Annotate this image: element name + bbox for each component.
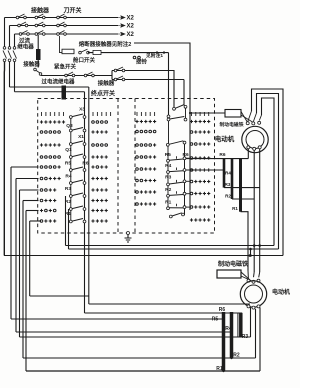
motor1 slant c [259, 115, 261, 121]
controller row left y221 [40, 219, 56, 222]
controller2 row left y204 [136, 202, 157, 205]
controller row mid y190 [91, 188, 107, 191]
contactor KM2 main contact phase 2 [35, 22, 45, 27]
arrow to X2 phase 1 [118, 16, 125, 20]
wire tap bank1 y170 [186, 169, 224, 171]
wire chain1 bottom drop x84.5 [84, 232, 86, 313]
chain2 link x186 [185, 108, 187, 118]
label chain2 R6 [183, 152, 189, 158]
controller row left y145 [40, 143, 61, 146]
controller row mid y157 [91, 155, 107, 158]
junction y245.5 a [253, 244, 256, 247]
label fuse-contactor note2 [79, 40, 132, 48]
controller row mid y167 [91, 165, 107, 168]
label hatch switch [73, 56, 96, 64]
contactor KM main contact phase 2 [18, 22, 28, 27]
fuse slant phase 2 [8, 51, 12, 59]
resistor bar R6b [231, 159, 234, 199]
label bank1 R4 [225, 171, 231, 176]
arrow to X2 phase 2 [118, 24, 125, 28]
controller2 row right y121.5 [190, 120, 210, 123]
terminal circle x168.5 [167, 115, 170, 118]
wire phase drop 3 [14, 34, 16, 47]
wire phase A long drop (outer left) [3, 62, 5, 256]
fuse F1 rect [62, 49, 74, 54]
emergency switch contact a [65, 72, 75, 77]
label bank1 R6 [219, 152, 225, 158]
motor2 rotor wire b [255, 309, 257, 358]
chain2 ladder contact y170 [165, 162, 190, 181]
svg-text:R4: R4 [225, 171, 231, 176]
controller2 row left y192 [136, 190, 157, 193]
knife switch QS pole 2 [57, 22, 67, 27]
wire return y245.5 [66, 245, 275, 247]
label bank1 R1 [232, 206, 238, 211]
wire phase L1 horizontal [5, 17, 119, 19]
svg-text:接触器: 接触器 [23, 60, 40, 68]
controller2 row left y145 [136, 143, 157, 146]
motor 1 stator circle [242, 126, 268, 152]
wire chain1 bottom drop x88.8 [88, 232, 90, 304]
chain2 link x168.5 [168, 121, 170, 143]
fuse slant phase 1 [3, 51, 7, 59]
controller2 row right y114 [192, 112, 209, 116]
svg-text:电动机: 电动机 [215, 134, 235, 143]
svg-text:过流: 过流 [19, 37, 31, 45]
terminal circle lower phase 3 [13, 59, 16, 62]
hatch switch contact [79, 49, 90, 54]
bank1 tap x248 slant [247, 271, 249, 280]
controller2 row right y170 [190, 168, 210, 171]
controller row mid y145 [92, 144, 108, 147]
resistor2 thin line [237, 313, 239, 337]
contactor KM2 main contact phase 1 [35, 14, 45, 19]
motor2 rotor wire c [259, 308, 261, 372]
motor1 bottom terminal c [258, 146, 261, 149]
motor1 terminal c [258, 121, 261, 124]
wire controller tap 3 horizontal [20, 189, 39, 191]
wire control y87 [10, 86, 89, 88]
chain1 vertical bus x88.8 [88, 87, 90, 232]
label X2 phase 1 [127, 16, 135, 22]
svg-text:X1: X1 [78, 134, 84, 140]
arrow to X2 phase 3 [118, 32, 125, 36]
contactor KM2 main contact phase 3 [35, 31, 45, 36]
controller box2 left dashed edge [134, 99, 136, 234]
ground symbol [125, 232, 132, 243]
wire controller tap 5 vertical [25, 211, 27, 372]
motor1 bottom terminal b [253, 147, 256, 150]
controller row left y178.5 [40, 177, 61, 180]
wire chain1 aux drop x68.5 [68, 209, 70, 249]
motor 1 rotor circle [246, 131, 264, 149]
controller box1 right dashed edge [117, 99, 119, 234]
controller2 row left y114 [137, 112, 155, 116]
wire controller tap 4 vertical [22, 201, 24, 359]
wire brake2 slant a [241, 272, 250, 280]
chain2 ladder contact y158.2 [165, 146, 190, 169]
motor2 rotor wire a [250, 308, 252, 338]
svg-text:见附注1: 见附注1 [146, 52, 163, 59]
chain1 vertical bus x84.5 [84, 92, 86, 232]
motor1 rotor wire b slant [253, 272, 256, 277]
svg-text:R3: R3 [225, 182, 231, 187]
wire bottom y313 (bar top bus) [85, 312, 243, 314]
controller row left y210.5 [40, 209, 56, 212]
label motor 2 [272, 288, 290, 296]
label brake electromagnet 2 [218, 260, 248, 268]
wire bottom y296 [30, 295, 89, 297]
label motor 1 [215, 134, 235, 143]
controller2 row right y207 [190, 205, 210, 208]
motor2 bottom terminal a [247, 305, 250, 308]
wire x184 drop [183, 80, 185, 106]
label end switch [90, 90, 115, 98]
controller2 row right y181.5 [190, 180, 210, 183]
controller row mid y178.5 [91, 177, 107, 180]
chain1 contact Q3 [66, 118, 86, 132]
controller row left y200.5 [40, 199, 56, 202]
wire controller tap 2 vertical [15, 179, 17, 333]
controller row mid y221 [91, 219, 107, 222]
motor1 rotor wire b (long) [253, 150, 255, 272]
label overcurrent relay long [41, 78, 75, 86]
wire brake1 to motor b [241, 115, 253, 122]
resistor bar R6a [223, 159, 226, 188]
bank1 tap y211.7 [241, 212, 249, 271]
wire phase L3 horizontal [15, 33, 119, 35]
contactor aux contact below relay [34, 68, 42, 75]
controller2 row right y220 [190, 218, 210, 221]
controller row mid y200.5 [91, 199, 107, 202]
svg-text:R1: R1 [232, 206, 238, 211]
svg-text:电动机: 电动机 [272, 288, 290, 296]
motor 2 stator circle [240, 281, 266, 307]
fuse F2 rect [93, 50, 101, 54]
chain2 top contact B [167, 117, 187, 122]
chain2 right bus [184, 144, 186, 215]
junction bell a [156, 51, 158, 53]
label chain2 R5 [165, 152, 171, 158]
overcurrent relay coil KA1 (filled) [36, 35, 41, 68]
controller2 row left y157 [136, 155, 157, 158]
wire controller tap 1 vertical [10, 167, 12, 319]
wire brake1 feed [190, 112, 225, 114]
fuse slant phase 3 [13, 51, 17, 59]
chain2 ladder contact y207.1 [167, 197, 191, 209]
label bell [136, 58, 148, 66]
svg-text:X2: X2 [127, 32, 135, 38]
wire control split vertical [111, 71, 113, 80]
motor1 bottom terminal a [247, 146, 250, 149]
contactor aux pair on y70.5 [114, 67, 125, 72]
label contactor right [98, 79, 115, 87]
motor2 top terminal c [257, 279, 260, 282]
label X2 phase 2 [127, 24, 135, 30]
wire controller tap 2 horizontal [16, 178, 39, 180]
controller2 row right y132 [190, 130, 210, 133]
chain1 contact X3 [69, 107, 86, 119]
junction y245.5 b [258, 244, 261, 247]
svg-text:制动电磁铁: 制动电磁铁 [218, 260, 248, 268]
chain2 ladder top contact [166, 141, 186, 146]
junction R4 bar [230, 331, 232, 333]
chain1 contact R4 [65, 171, 85, 184]
label overcurrent relay line2 [17, 43, 34, 51]
label R3 bottom [242, 334, 249, 340]
chain1 contact X1 [69, 132, 86, 146]
controller dashed box outline [38, 99, 215, 234]
label X2 phase 3 [127, 32, 135, 38]
contactor KM main contact phase 1 [16, 14, 26, 19]
wire row221 branch [29, 221, 31, 296]
motor1 over-arch feed a [252, 89, 284, 256]
chain1 contact R1 [65, 210, 86, 223]
junction R2 bar [230, 357, 232, 359]
svg-text:Q3: Q3 [66, 123, 73, 129]
junction y255.5 [249, 254, 252, 257]
resistor2 bar A [222, 312, 226, 371]
controller row left y167 [40, 165, 61, 168]
controller row mid y210.5 [91, 209, 107, 212]
terminal circle lower phase 1 [3, 59, 6, 62]
contactor KM main contact phase 3 [19, 31, 29, 36]
motor1 rotor wire c (long) [259, 149, 261, 272]
bank1 tap y199 [232, 198, 254, 200]
wire phase drop 1 [4, 18, 6, 47]
wire controller tap 5 horizontal [26, 210, 39, 212]
chain2 ladder contact y193.7 [165, 186, 190, 206]
resistor2 bar D [239, 313, 243, 337]
chain2 top contact A [173, 105, 187, 111]
wire control y70.5 [112, 71, 174, 108]
controller row mid y132 [91, 130, 107, 133]
motor2 bottom terminal c [257, 305, 260, 308]
label see note1 [146, 52, 163, 59]
motor1 slant b [253, 113, 256, 122]
wire tap R3 y337 [20, 336, 251, 338]
motor1 over-arch feed b [257, 94, 279, 250]
wire control y75.5 [41, 75, 112, 77]
label R5 bottom [212, 317, 219, 323]
chain1 label R6 [82, 161, 88, 167]
svg-text:X2: X2 [127, 16, 135, 22]
label brake electromagnet 1 [220, 121, 244, 128]
svg-text:继电器: 继电器 [17, 43, 34, 51]
knife switch QS pole 1 [57, 14, 67, 19]
label emergency switch [54, 63, 77, 71]
svg-text:终点开关: 终点开关 [90, 90, 115, 98]
svg-text:熔断器接触器见附注2: 熔断器接触器见附注2 [79, 40, 132, 48]
junction y255.5 b [249, 254, 252, 257]
overcurrent relay coil KA3 (filled) [62, 86, 67, 100]
wire bell line [88, 52, 169, 54]
motor1 slant a [248, 111, 252, 122]
label overcurrent relay line1 [19, 37, 31, 45]
controller row left y122 [40, 120, 65, 123]
label bank1 R2 [225, 194, 231, 199]
wire controller tap 1 horizontal [11, 166, 39, 168]
motor2 top terminal b [252, 280, 255, 283]
svg-text:过电流继电器: 过电流继电器 [41, 78, 75, 86]
chain1 contact R2 [65, 197, 86, 210]
terminal circle lower phase 2 [8, 59, 11, 62]
wire tap R2 y358 [23, 357, 256, 359]
svg-text:X2: X2 [127, 24, 135, 30]
junction brake1 feed [189, 112, 191, 114]
brake electromagnet 2 rect [217, 270, 241, 278]
svg-text:接触器: 接触器 [98, 79, 115, 87]
svg-text:R6: R6 [82, 161, 88, 167]
label knife switch [63, 7, 81, 15]
motor1 over-arch feed c [262, 98, 275, 246]
wire controller tap 3 vertical [19, 190, 21, 337]
wire phase B drop to bus [9, 62, 11, 88]
wire phase L2 horizontal [10, 25, 119, 27]
label R4 bottom [225, 326, 232, 332]
controller row left y157 [40, 156, 60, 159]
junction R5 bar [222, 318, 224, 320]
wire row221 horiz [30, 220, 41, 222]
wire tap R5 y319 [11, 318, 224, 320]
controller2 row right y193.5 [190, 192, 210, 195]
svg-text:R6: R6 [219, 152, 225, 158]
motor2 feed drop c [250, 249, 252, 256]
junction bell b [163, 51, 165, 53]
controller row left y132 [40, 131, 60, 134]
controller row mid y122 [92, 121, 108, 124]
bell plug circles [133, 56, 140, 59]
label R2 bottom [233, 353, 240, 359]
resistor2 bar B [230, 312, 234, 358]
wire bell drop x168.5 [168, 53, 170, 115]
overcurrent relay contact b [84, 72, 94, 77]
controller2 row right y144 [190, 142, 210, 145]
wire controller tap 4 horizontal [23, 200, 39, 202]
wire phase drop 2 [9, 26, 11, 47]
label R1 bottom [216, 366, 223, 372]
svg-text:接触器: 接触器 [30, 7, 50, 15]
motor1 rotor wire c slant [259, 272, 260, 277]
motor2 bottom terminal b [252, 306, 255, 309]
chain1 contact R5 [65, 158, 86, 171]
terminal circle upper phase 3 [13, 47, 16, 50]
junction R1 bar [222, 370, 224, 372]
label contactor top [30, 7, 50, 15]
controller2 row left y131.5 [136, 130, 156, 133]
svg-text:R2: R2 [225, 194, 231, 199]
svg-text:制动电磁铁: 制动电磁铁 [220, 121, 244, 128]
motor 2 rotor circle [245, 285, 263, 303]
controller row mid y114 [93, 112, 111, 116]
svg-text:R6: R6 [219, 307, 226, 313]
brake electromagnet 1 rect [225, 110, 241, 118]
wire tap R4 y332 [16, 331, 232, 333]
chain1 contact R3 [65, 184, 86, 197]
wire brake2 slant b [241, 276, 252, 281]
junction y249 [249, 248, 252, 251]
terminal circle upper phase 1 [3, 47, 6, 50]
motor1 terminal b [252, 122, 255, 125]
svg-text:舱口开关: 舱口开关 [73, 56, 96, 64]
wire control y79.5 [112, 79, 184, 81]
motor1 terminal a [246, 122, 249, 125]
label R6 bottom [219, 307, 226, 313]
label bank1 R3 [225, 182, 231, 187]
wire return y249 [69, 248, 279, 250]
motor2 top terminal a [247, 279, 250, 282]
controller2 row left y180.5 [136, 179, 157, 182]
wire brake1 to motor a [241, 112, 247, 122]
label contactor mid-left [23, 60, 40, 68]
terminal circle upper phase 2 [8, 47, 11, 50]
motor1 rotor wire a [247, 149, 249, 159]
controller2 row left y169 [136, 167, 157, 170]
chain2 ladder contact y181.3 [165, 173, 190, 193]
controller2 row left y121.5 [135, 120, 156, 123]
svg-text:刀开关: 刀开关 [63, 7, 81, 15]
wire chain1 aux drop x65.5 [65, 196, 67, 246]
controller2 row right y158 [190, 156, 210, 159]
resistor bus top [186, 158, 248, 160]
wire bottom y304 [89, 303, 250, 305]
controller row left y190 [40, 188, 56, 191]
wire phase C drop to bus [14, 62, 16, 92]
wire tap R1 y371 [26, 370, 260, 372]
bank1 tap y187.6 [224, 187, 260, 189]
wire control y91.75 [15, 91, 85, 93]
wire return y255.5 (full width) [4, 255, 283, 257]
svg-text:X3: X3 [79, 107, 85, 113]
wire fuse line left [60, 36, 63, 53]
chain1 contact Q1 [65, 145, 86, 158]
knife switch QS pole 3 [57, 31, 67, 36]
wire note2 line y43 [134, 43, 190, 210]
chain2 bottom contact [169, 213, 184, 218]
resistor bar R6c [239, 159, 242, 212]
controller row left y114 [42, 112, 64, 116]
contactor aux pair on y79.5 [114, 76, 125, 81]
